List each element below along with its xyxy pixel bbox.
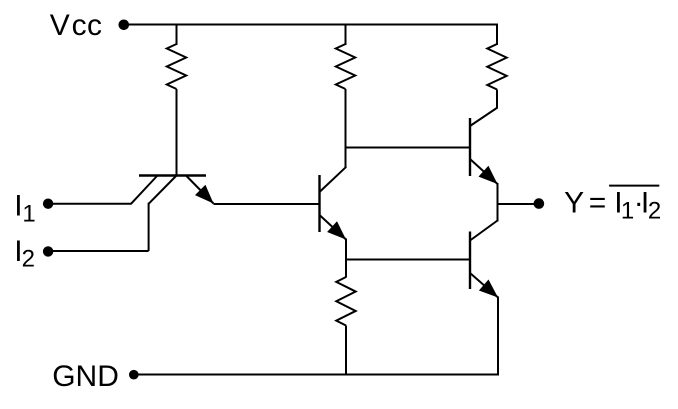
wire input I2 xyxy=(47,250,149,252)
resistor R1 xyxy=(167,44,186,89)
svg-text:2: 2 xyxy=(22,246,35,273)
transistor Q3 emitter diagonal xyxy=(470,159,498,184)
svg-text:V: V xyxy=(50,9,70,42)
wire Q3 emitter to output node xyxy=(497,183,499,205)
wire I2 vertical xyxy=(148,203,150,251)
wire R1 top lead xyxy=(176,25,178,46)
wire Q2 collector to Q3 base xyxy=(346,147,471,149)
resistor R3 xyxy=(487,44,506,90)
transistor Q3 collector diagonal xyxy=(470,108,498,127)
wire input I1 xyxy=(48,203,132,205)
transistor Q1 base bar (multi-emitter input) xyxy=(139,174,206,176)
svg-text:cc: cc xyxy=(72,9,103,42)
svg-text:=: = xyxy=(589,186,607,219)
transistor Q2 emitter diagonal xyxy=(320,215,347,240)
node Vcc terminal dot xyxy=(119,20,130,31)
node GND terminal dot xyxy=(129,370,139,380)
transistor Q4 emitter diagonal xyxy=(470,273,498,298)
wire Vcc rail xyxy=(123,24,497,26)
transistor Q1 emitter arrowhead xyxy=(195,185,214,204)
transistor Q1 emitter 2 diagonal xyxy=(149,176,176,204)
wire R4 bottom lead xyxy=(345,326,347,375)
wire R4 top lead xyxy=(345,260,347,278)
svg-text:1: 1 xyxy=(621,198,634,225)
transistor Q2 base bar (phase splitter) xyxy=(318,175,320,232)
wire R2 top lead xyxy=(345,25,347,46)
transistor Q4 emitter arrowhead xyxy=(479,280,498,298)
transistor Q3 emitter arrowhead xyxy=(479,166,498,184)
transistor Q3 base bar (top output) xyxy=(469,118,471,176)
svg-text:GND: GND xyxy=(52,360,119,393)
wire R2 bottom lead xyxy=(345,89,347,168)
wire R1 to Q1 collector xyxy=(176,89,178,177)
transistor Q1 emitter 1 diagonal xyxy=(131,176,157,204)
transistor Q1 emitter arrow diagonal xyxy=(187,176,214,204)
transistor Q4 collector diagonal xyxy=(470,221,498,241)
svg-text:I: I xyxy=(14,190,22,223)
transistor Q4 base bar (bottom output) xyxy=(469,232,471,290)
node Y output terminal dot xyxy=(534,198,545,209)
wire Q4 emitter vertical xyxy=(497,297,499,376)
node I2 terminal dot xyxy=(43,246,53,256)
wire R3 top lead xyxy=(496,24,498,46)
wire output node to Q4 collector xyxy=(497,204,499,222)
wire output to Y terminal xyxy=(498,203,535,205)
svg-text:1: 1 xyxy=(22,201,35,228)
svg-text:2: 2 xyxy=(648,198,661,225)
wire Q1 emitter to Q2 base xyxy=(214,203,320,205)
node I1 terminal dot xyxy=(43,199,53,209)
wire GND rail xyxy=(134,374,499,376)
transistor Q2 emitter arrowhead xyxy=(327,221,346,239)
svg-text:Y: Y xyxy=(564,186,584,219)
wire Q2 emitter vertical xyxy=(345,239,347,261)
wire Q2 emitter to Q4 base xyxy=(346,259,470,261)
overline bar of expression xyxy=(609,185,659,187)
resistor R4 xyxy=(336,277,355,326)
transistor Q2 collector diagonal xyxy=(320,167,347,192)
resistor R2 xyxy=(336,44,355,89)
wire R3 bottom lead xyxy=(496,90,498,109)
